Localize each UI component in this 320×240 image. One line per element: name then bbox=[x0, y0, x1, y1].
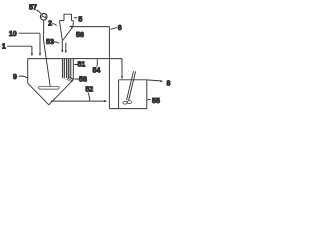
leader 53 bbox=[53, 42, 59, 43]
svg-text:5: 5 bbox=[78, 16, 82, 24]
dash leader 51 bbox=[74, 64, 78, 66]
heat exchanger 51 shading bbox=[62, 59, 64, 78]
wire 52 underflow line bbox=[51, 100, 104, 102]
cyclone top edge left bbox=[59, 20, 64, 22]
svg-text:55: 55 bbox=[152, 97, 160, 105]
svg-text:51: 51 bbox=[77, 61, 85, 69]
tank T9 left wall bbox=[27, 59, 29, 84]
arrow 54 into tank 55 bbox=[121, 76, 123, 79]
svg-text:54: 54 bbox=[92, 67, 100, 75]
svg-text:2: 2 bbox=[48, 20, 52, 28]
svg-text:1: 1 bbox=[2, 43, 6, 51]
agitator bar bbox=[39, 86, 60, 89]
leader 54 bbox=[96, 59, 99, 67]
cyclone top edge right bbox=[72, 20, 74, 22]
stirrer shaft tank 55 line a bbox=[127, 71, 134, 100]
pipe 51 vertical lines bbox=[61, 59, 63, 79]
cyclone right edge upper bbox=[72, 21, 74, 27]
leader 57 to motor bbox=[36, 10, 41, 14]
cyclone underflow pipe right line bbox=[65, 43, 67, 51]
wire 56 feed line to cyclone bbox=[72, 26, 110, 28]
svg-text:58: 58 bbox=[79, 76, 87, 84]
agitator shaft bbox=[44, 20, 51, 86]
tank T9 cone left bbox=[28, 83, 49, 105]
leader 2 to cyclone bbox=[52, 24, 56, 26]
arrow 8 bbox=[160, 80, 163, 82]
tank T9 top lid and line 54 bbox=[28, 58, 122, 60]
arrow feed 10 into tank 9 bbox=[39, 53, 41, 56]
leader 6 bbox=[111, 27, 117, 29]
stirrer shaft tank 55 line b bbox=[129, 71, 136, 100]
tank T9 right wall bbox=[72, 59, 74, 80]
tank T55 top edge bbox=[119, 79, 147, 81]
cyclone right edge cone bbox=[63, 27, 73, 41]
arrow underflow right bbox=[65, 51, 67, 54]
wire feed line 10 horizontal bbox=[19, 32, 41, 34]
svg-text:9: 9 bbox=[13, 73, 17, 81]
tank T9 cone right bbox=[49, 80, 74, 105]
leader 52 bbox=[88, 92, 90, 100]
cyclone C2 vortex finder pipe 5 bbox=[64, 14, 72, 20]
leader 9 bbox=[19, 76, 28, 78]
wire overflow downpipe 6 bbox=[108, 27, 110, 109]
svg-text:53: 53 bbox=[46, 38, 54, 46]
arrow underflow left bbox=[61, 50, 63, 53]
cyclone left edge bbox=[59, 21, 62, 41]
wire feed line 10 vertical bbox=[39, 33, 41, 53]
tank T55 bottom bbox=[109, 108, 146, 110]
dash leader 58 bbox=[75, 78, 79, 80]
svg-text:52: 52 bbox=[85, 86, 93, 94]
arrow feed 1 into tank 9 bbox=[31, 53, 33, 56]
svg-text:56: 56 bbox=[76, 31, 84, 39]
propeller blade right bbox=[127, 101, 131, 104]
propeller blade left bbox=[123, 101, 127, 104]
wire feed line 1 vertical bbox=[31, 46, 33, 53]
dash leader 58 left part bbox=[71, 78, 75, 80]
wire feed line 1 horizontal bbox=[7, 45, 32, 47]
arrow into cyclone bbox=[69, 26, 72, 28]
pipe 51 bottom hatch bbox=[67, 77, 74, 81]
wire outlet line 8 bbox=[147, 80, 161, 81]
arrow 52 into vessel bbox=[104, 100, 107, 102]
wire 54 downpipe into tank 55 bbox=[121, 59, 123, 77]
svg-text:8: 8 bbox=[167, 80, 171, 88]
dash leader 55 bbox=[147, 98, 151, 101]
motor M57 circle bbox=[40, 13, 47, 20]
cyclone underflow pipe left line bbox=[61, 40, 63, 50]
tank T55 inner left wall bbox=[118, 80, 120, 109]
svg-text:6: 6 bbox=[118, 24, 122, 32]
svg-text:57: 57 bbox=[29, 4, 37, 12]
svg-text:10: 10 bbox=[9, 30, 17, 38]
dash leader 5 bbox=[74, 17, 78, 19]
tank T55 right wall bbox=[146, 80, 148, 109]
motor internal mark bbox=[42, 15, 46, 18]
